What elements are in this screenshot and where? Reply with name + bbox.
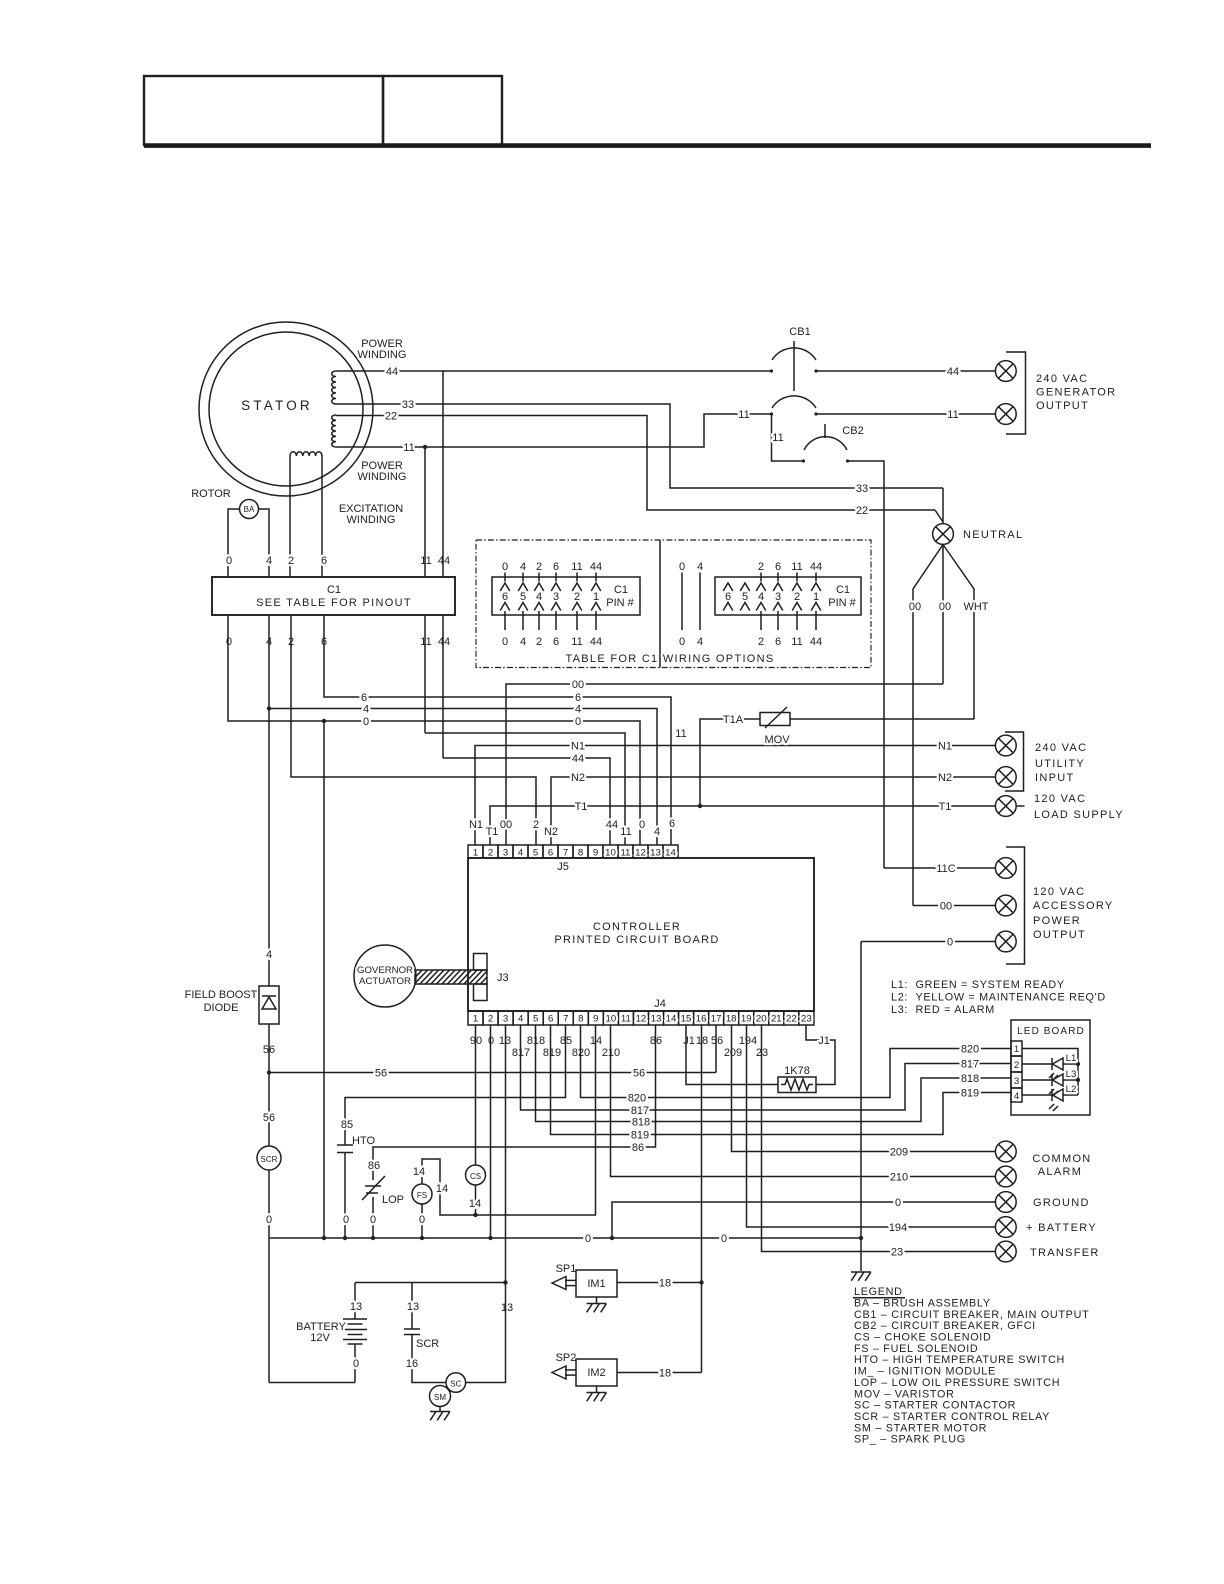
neutral node symbol — [933, 524, 954, 545]
title block box left — [144, 76, 383, 145]
svg-text:21: 21 — [771, 1014, 782, 1025]
svg-text:1: 1 — [473, 848, 478, 859]
wire 11 drop to CB2 — [772, 414, 804, 461]
junction 18 IM1 — [699, 1280, 703, 1284]
svg-text:T1A: T1A — [723, 714, 744, 726]
wire J1 J4-15 to resistor — [686, 1025, 778, 1085]
svg-text:240 VAC: 240 VAC — [1035, 742, 1087, 754]
svg-text:818: 818 — [632, 1117, 650, 1129]
wire pin3 to L3 — [1022, 1079, 1052, 1081]
wire 0 net — [228, 615, 640, 845]
svg-text:PIN #: PIN # — [828, 597, 856, 609]
svg-text:0: 0 — [226, 636, 232, 648]
svg-text:1: 1 — [1014, 1044, 1019, 1055]
svg-text:820: 820 — [628, 1093, 646, 1105]
table1 col 11 bottom pin chevron — [572, 603, 582, 611]
svg-text:194: 194 — [889, 1222, 907, 1234]
wire 209 J4-18 to terminal — [732, 1025, 996, 1152]
wire 56 diode to SCR — [268, 1024, 270, 1146]
table for C1 wiring options outer box — [476, 540, 871, 668]
junction 11 vertical — [423, 445, 427, 449]
table1 col 4 top pin chevron — [518, 583, 528, 591]
wire N2 net from J5-6 to terminal — [551, 777, 995, 845]
svg-text:0: 0 — [639, 819, 645, 831]
svg-text:4: 4 — [266, 555, 272, 567]
LED board box — [1011, 1020, 1090, 1115]
svg-text:44: 44 — [572, 753, 584, 765]
wire capacitor to SC — [412, 1335, 446, 1383]
wire battery bottom lead — [354, 1344, 356, 1383]
table1 col 44 bottom wire — [595, 611, 597, 630]
choke solenoid CS — [466, 1165, 486, 1185]
wire 13 down to SC — [466, 1283, 506, 1383]
svg-text:SEE TABLE FOR PINOUT: SEE TABLE FOR PINOUT — [256, 597, 412, 609]
wire BA right lead — [259, 509, 270, 577]
svg-text:0: 0 — [363, 716, 369, 728]
svg-text:00: 00 — [500, 819, 512, 831]
wire battery return — [269, 1382, 355, 1384]
LED L1 symbol — [1051, 1058, 1053, 1070]
svg-text:194: 194 — [739, 1035, 757, 1047]
svg-text:CB1 – CIRCUIT BREAKER, MAIN OU: CB1 – CIRCUIT BREAKER, MAIN OUTPUT — [854, 1309, 1089, 1321]
table2 pin 1 top chevron — [811, 583, 821, 591]
svg-text:00: 00 — [909, 601, 921, 613]
svg-text:00: 00 — [939, 601, 951, 613]
wire SM ground stem — [439, 1407, 441, 1412]
svg-text:11: 11 — [738, 409, 749, 421]
svg-text:12: 12 — [636, 1014, 647, 1025]
svg-text:2: 2 — [488, 1014, 493, 1025]
power winding coil lower — [332, 415, 336, 447]
bus junction dots — [322, 1236, 326, 1240]
junction CS 14 line — [473, 1213, 477, 1217]
table1 col 6 bottom pin chevron — [551, 603, 561, 611]
wire 90 J4-1 to CS — [475, 1025, 477, 1165]
svg-text:LOAD SUPPLY: LOAD SUPPLY — [1034, 809, 1124, 821]
svg-text:44: 44 — [590, 561, 602, 573]
svg-text:2: 2 — [1014, 1060, 1019, 1071]
battery symbol — [343, 1318, 367, 1320]
LED board connector cells — [1011, 1041, 1022, 1056]
wire CS to 14 line — [475, 1185, 477, 1215]
connector C1 box — [212, 577, 455, 615]
svg-text:14: 14 — [665, 848, 676, 859]
svg-text:SM – STARTER MOTOR: SM – STARTER MOTOR — [854, 1422, 987, 1434]
svg-text:11: 11 — [403, 442, 414, 454]
svg-text:IM_ – IGNITION MODULE: IM_ – IGNITION MODULE — [854, 1366, 996, 1378]
svg-text:MOV: MOV — [764, 734, 790, 746]
table2 col 11 top wire — [796, 573, 798, 582]
fuel solenoid FS — [412, 1184, 432, 1204]
svg-text:IM1: IM1 — [587, 1278, 605, 1290]
table2 col 11 bottom wire — [796, 611, 798, 630]
governor actuator circle — [354, 945, 416, 1007]
table1 col 11 top pin chevron — [572, 583, 582, 591]
svg-text:ROTOR: ROTOR — [191, 488, 231, 500]
svg-text:C1: C1 — [327, 584, 341, 596]
svg-text:SM: SM — [434, 1393, 446, 1402]
svg-text:OUTPUT: OUTPUT — [1036, 400, 1089, 412]
svg-text:L1: L1 — [1066, 1053, 1077, 1064]
wire 86 J4-13 down — [373, 1025, 656, 1180]
table1 col 2 top wire — [538, 573, 540, 582]
table2 wire 4 passthrough — [699, 573, 701, 631]
table2 pin 6 bottom chevron — [723, 603, 733, 611]
svg-text:J5: J5 — [557, 861, 569, 873]
table right inner connector box — [715, 577, 861, 615]
table1 col 2 bottom pin chevron — [534, 603, 544, 611]
LED L3 symbol — [1051, 1074, 1053, 1086]
terminal 0 ground — [995, 1192, 1016, 1213]
terminal T1 load — [995, 796, 1016, 817]
T1 terminal dash — [1017, 805, 1025, 807]
svg-text:1K78: 1K78 — [784, 1065, 810, 1077]
table1 col 44 top pin chevron — [591, 583, 601, 591]
svg-text:7: 7 — [563, 848, 568, 859]
wire 00 net — [506, 684, 943, 845]
svg-text:2: 2 — [533, 819, 539, 831]
svg-text:16: 16 — [696, 1014, 707, 1025]
neutral fan right WHT — [943, 545, 974, 720]
wire 4 net vertical — [268, 615, 270, 986]
svg-text:19: 19 — [741, 1014, 752, 1025]
svg-text:SC – STARTER CONTACTOR: SC – STARTER CONTACTOR — [854, 1400, 1016, 1412]
svg-text:J1: J1 — [818, 1035, 830, 1047]
table1 col 4 top wire — [522, 573, 524, 582]
terminal N2 utility — [995, 767, 1016, 788]
svg-text:COMMON: COMMON — [1032, 1153, 1091, 1165]
wire pin4 to L2 — [1022, 1094, 1052, 1096]
svg-text:FS – FUEL SOLENOID: FS – FUEL SOLENOID — [854, 1343, 978, 1355]
terminal 194 battery — [995, 1217, 1016, 1238]
svg-text:13: 13 — [350, 1301, 362, 1313]
wire 818 net — [536, 1025, 1012, 1122]
svg-text:CB1: CB1 — [789, 326, 810, 338]
svg-text:120 VAC: 120 VAC — [1034, 793, 1086, 805]
stator outer circle — [199, 322, 373, 496]
svg-text:4: 4 — [1014, 1091, 1020, 1102]
svg-text:6: 6 — [321, 555, 327, 567]
wire 00 to terminal — [913, 905, 995, 907]
svg-text:11: 11 — [791, 561, 802, 573]
svg-text:0: 0 — [343, 1214, 349, 1226]
svg-text:CB2 – CIRCUIT BREAKER, GFCI: CB2 – CIRCUIT BREAKER, GFCI — [854, 1320, 1036, 1332]
svg-text:T1: T1 — [486, 826, 499, 838]
table2 pin 3 bottom chevron — [773, 603, 783, 611]
svg-text:LOP: LOP — [382, 1194, 404, 1206]
svg-text:4: 4 — [518, 848, 524, 859]
svg-text:11: 11 — [621, 1014, 631, 1025]
svg-text:6: 6 — [575, 692, 581, 704]
wire 13 line — [355, 1282, 506, 1284]
svg-text:11C: 11C — [936, 863, 955, 875]
svg-text:0: 0 — [575, 716, 581, 728]
low oil pressure switch LOP symbol — [365, 1185, 381, 1187]
wire 11 from stator — [336, 414, 771, 447]
wire excitation left lead — [289, 456, 291, 577]
svg-text:210: 210 — [890, 1172, 908, 1184]
svg-text:2: 2 — [758, 636, 764, 648]
svg-text:WINDING: WINDING — [358, 471, 407, 483]
svg-text:N1: N1 — [469, 819, 483, 831]
table1 col 2 bottom wire — [538, 611, 540, 630]
table2 pin 1 bottom chevron — [811, 603, 821, 611]
wire FS to bus — [421, 1204, 423, 1238]
svg-text:1: 1 — [473, 1014, 478, 1025]
svg-text:CONTROLLER: CONTROLLER — [593, 921, 681, 933]
wire battery top lead — [354, 1283, 356, 1320]
svg-text:16: 16 — [406, 1358, 418, 1370]
svg-text:33: 33 — [856, 483, 868, 495]
table1 col 2 top pin chevron — [534, 583, 544, 591]
table2 pin 2 top chevron — [792, 583, 802, 591]
svg-text:6: 6 — [669, 818, 675, 830]
svg-text:0: 0 — [679, 561, 685, 573]
table2 col 2 bottom wire — [760, 611, 762, 630]
LED board rail from pin1 — [1022, 1049, 1078, 1096]
controller printed circuit board outline — [468, 858, 814, 1011]
svg-text:44: 44 — [606, 819, 618, 831]
svg-text:CS: CS — [470, 1172, 481, 1181]
svg-text:WINDING: WINDING — [347, 514, 396, 526]
wire 819 net — [551, 1025, 1012, 1135]
wire 0 common bus — [269, 1237, 861, 1239]
svg-text:56: 56 — [263, 1112, 275, 1124]
table2 pin 2 bottom chevron — [792, 603, 802, 611]
terminal 0 accessory — [995, 931, 1016, 952]
svg-text:ACTUATOR: ACTUATOR — [359, 976, 411, 987]
svg-text:FIELD BOOST: FIELD BOOST — [185, 989, 258, 1001]
svg-text:GENERATOR: GENERATOR — [1036, 387, 1116, 399]
svg-text:INPUT: INPUT — [1035, 772, 1075, 784]
svg-text:6: 6 — [553, 561, 559, 573]
starter control relay SCR — [257, 1146, 281, 1170]
table2 pin 3 top chevron — [773, 583, 783, 591]
wire 0 J4-2 to bus — [490, 1025, 492, 1238]
svg-text:0: 0 — [226, 555, 232, 567]
svg-text:33: 33 — [402, 399, 414, 411]
svg-text:11: 11 — [420, 555, 431, 567]
wire 210 J4-10 to terminal — [611, 1025, 996, 1177]
svg-text:18: 18 — [659, 1278, 671, 1290]
svg-text:44: 44 — [810, 636, 822, 648]
svg-text:0: 0 — [419, 1214, 425, 1226]
varistor MOV diagonal — [765, 707, 787, 728]
svg-text:N1: N1 — [938, 741, 952, 753]
svg-text:HTO: HTO — [352, 1135, 375, 1147]
svg-text:BA – BRUSH ASSEMBLY: BA – BRUSH ASSEMBLY — [854, 1298, 991, 1310]
svg-text:44: 44 — [438, 636, 450, 648]
circuit breaker CB1 tie bar — [793, 341, 795, 391]
neutral fan middle 00 — [942, 545, 944, 685]
svg-text:15: 15 — [681, 1014, 692, 1025]
table1 col 0 bottom pin chevron — [500, 603, 510, 611]
table1 col 4 bottom wire — [522, 611, 524, 630]
svg-text:56: 56 — [633, 1068, 645, 1080]
svg-text:3: 3 — [1014, 1076, 1019, 1087]
table2 col 44 bottom wire — [815, 611, 817, 630]
wire J1 J4-23 to resistor — [806, 1025, 835, 1085]
svg-text:14: 14 — [436, 1183, 448, 1195]
terminal 11 generator output — [995, 404, 1016, 425]
svg-text:2: 2 — [488, 848, 493, 859]
svg-text:13: 13 — [650, 848, 661, 859]
stator inner circle — [209, 332, 363, 486]
wire ground drop — [860, 942, 862, 1272]
svg-text:7: 7 — [563, 1014, 568, 1025]
svg-text:13: 13 — [501, 1302, 513, 1314]
circuit breaker CB1 pole 2 arc — [772, 396, 816, 408]
svg-text:11: 11 — [772, 432, 783, 444]
svg-text:11: 11 — [791, 636, 802, 648]
terminal 210 common alarm — [995, 1166, 1016, 1187]
svg-text:4: 4 — [654, 826, 660, 838]
svg-text:0: 0 — [502, 561, 508, 573]
svg-text:LED BOARD: LED BOARD — [1017, 1026, 1085, 1037]
svg-text:ALARM: ALARM — [1038, 1166, 1082, 1178]
svg-text:17: 17 — [711, 1014, 722, 1025]
wire 817 net — [521, 1025, 1012, 1110]
svg-text:18: 18 — [659, 1368, 671, 1380]
wire T1A branch — [700, 719, 760, 806]
brush assembly BA — [240, 500, 259, 519]
svg-text:44: 44 — [810, 561, 822, 573]
svg-text:6: 6 — [548, 1014, 553, 1025]
svg-text:2: 2 — [536, 561, 542, 573]
svg-text:819: 819 — [543, 1047, 561, 1059]
svg-text:11: 11 — [571, 561, 582, 573]
table2 col 6 bottom wire — [777, 611, 779, 630]
neutral fan left 00 — [913, 545, 943, 906]
svg-text:18: 18 — [726, 1014, 737, 1025]
svg-text:GROUND: GROUND — [1033, 1197, 1090, 1209]
LED L2 symbol — [1051, 1089, 1053, 1101]
svg-text:13: 13 — [407, 1301, 419, 1313]
ground symbol IM1 — [587, 1304, 607, 1313]
table2 col 6 top wire — [777, 573, 779, 582]
svg-text:00: 00 — [940, 901, 952, 913]
wire SCR relay riser — [268, 1238, 270, 1383]
connector J4 cells — [468, 1011, 483, 1025]
svg-text:0: 0 — [353, 1358, 359, 1370]
wire CB2 output to 11C — [848, 461, 885, 868]
svg-text:0: 0 — [895, 1197, 901, 1209]
svg-text:22: 22 — [856, 505, 868, 517]
svg-text:10: 10 — [606, 1014, 617, 1025]
resistor 1K78 zigzag — [781, 1079, 813, 1090]
svg-text:J4: J4 — [654, 998, 666, 1010]
svg-text:12V: 12V — [310, 1332, 330, 1344]
wire 85 net — [345, 1025, 566, 1145]
svg-text:C1: C1 — [836, 584, 850, 596]
wire pin2 to L1 — [1022, 1063, 1052, 1065]
bracket 120 VAC accessory — [1006, 847, 1025, 964]
circuit breaker CB2 actuator tick — [824, 424, 826, 438]
svg-text:20: 20 — [756, 1014, 767, 1025]
terminal 23 transfer — [995, 1241, 1016, 1262]
svg-text:00: 00 — [572, 679, 584, 691]
IM1 ground stem — [596, 1297, 598, 1303]
svg-text:+ BATTERY: + BATTERY — [1026, 1222, 1097, 1234]
svg-text:120 VAC: 120 VAC — [1033, 886, 1085, 898]
CB1 contact dots — [770, 369, 773, 372]
circuit breaker CB2 arc — [804, 437, 847, 450]
svg-text:UTILITY: UTILITY — [1035, 758, 1085, 770]
svg-text:SP_ – SPARK PLUG: SP_ – SPARK PLUG — [854, 1434, 966, 1446]
terminal 209 common alarm — [995, 1141, 1016, 1162]
junction L1 rail — [1076, 1062, 1080, 1066]
starter contactor SC — [446, 1373, 466, 1393]
svg-text:44: 44 — [438, 555, 450, 567]
svg-text:BA: BA — [244, 505, 255, 514]
svg-text:14: 14 — [469, 1198, 481, 1210]
svg-text:11: 11 — [947, 409, 958, 421]
wire excitation right lead — [321, 456, 323, 577]
svg-text:56: 56 — [711, 1035, 723, 1047]
starter motor SM — [430, 1386, 451, 1407]
spark plug arrow SP2 — [552, 1366, 576, 1379]
wire 14 J4-9 down — [422, 1025, 596, 1215]
table2 pin 5 bottom chevron — [740, 603, 750, 611]
svg-text:PIN #: PIN # — [606, 597, 634, 609]
wire BA left lead — [228, 509, 240, 577]
wire 44 net horizontal — [443, 758, 610, 845]
svg-text:0: 0 — [721, 1233, 727, 1245]
excitation winding coil — [290, 452, 322, 456]
svg-text:SP1: SP1 — [556, 1263, 577, 1275]
wire MOV to WHT — [790, 718, 974, 720]
svg-text:0: 0 — [679, 636, 685, 648]
svg-text:HTO – HIGH TEMPERATURE SWITCH: HTO – HIGH TEMPERATURE SWITCH — [854, 1354, 1065, 1366]
wire 11 CB1 to terminal — [816, 413, 995, 415]
svg-text:N2: N2 — [571, 772, 585, 784]
svg-text:11: 11 — [571, 636, 582, 648]
svg-text:SP2: SP2 — [556, 1352, 577, 1364]
svg-text:J3: J3 — [497, 972, 509, 984]
svg-text:0: 0 — [266, 1214, 272, 1226]
svg-text:8: 8 — [578, 1014, 583, 1025]
svg-text:209: 209 — [724, 1047, 742, 1059]
wire 56 branch to J4-17 — [269, 1072, 716, 1074]
wire SCR to bus — [268, 1170, 270, 1238]
svg-text:0: 0 — [947, 937, 953, 949]
svg-text:820: 820 — [961, 1044, 979, 1056]
svg-text:L2: YELLOW = MAINTENANCE REQ': L2: YELLOW = MAINTENANCE REQ'D — [891, 992, 1106, 1004]
title block box right — [383, 76, 502, 145]
svg-text:819: 819 — [961, 1088, 979, 1100]
table2 col 44 top wire — [815, 573, 817, 582]
table1 col 0 top pin chevron — [500, 583, 510, 591]
svg-text:85: 85 — [341, 1119, 353, 1131]
header heavy rule — [144, 143, 1151, 148]
svg-text:22: 22 — [786, 1014, 797, 1025]
svg-text:2: 2 — [758, 561, 764, 573]
wire 13 J4-3 down — [505, 1025, 507, 1283]
svg-text:86: 86 — [632, 1142, 644, 1154]
svg-text:N1: N1 — [571, 741, 585, 753]
wire 0 to terminal — [861, 941, 995, 943]
ignition module IM1 box — [576, 1270, 617, 1297]
svg-text:11: 11 — [420, 636, 431, 648]
junction 13 line — [503, 1280, 507, 1284]
wire 18 IM2 — [617, 1372, 702, 1374]
svg-text:4: 4 — [520, 636, 526, 648]
wire HTO to bus — [344, 1153, 346, 1239]
varistor MOV box — [760, 713, 790, 726]
junction 56 branch — [267, 1070, 271, 1074]
svg-text:11: 11 — [675, 728, 686, 740]
svg-text:44: 44 — [386, 366, 398, 378]
